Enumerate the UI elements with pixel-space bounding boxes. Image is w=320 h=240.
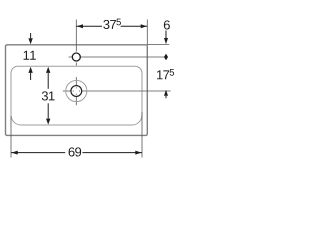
tap hole bottom tick bbox=[75, 63, 77, 66]
tap hole centerline vertical (extension up to dim 37.5) bbox=[75, 20, 77, 52]
dim 69 right arrow bbox=[135, 151, 141, 155]
dim 37.5 line right segment bbox=[121, 25, 148, 27]
dim 69 label bbox=[69, 147, 82, 156]
dim 6 down arrow bbox=[165, 31, 167, 39]
dim 31 label bbox=[42, 91, 55, 100]
dim 69 line right segment bbox=[82, 152, 142, 154]
dim 37.5 line left segment bbox=[76, 25, 102, 27]
dim 6/17.5 diamond at tap centerline bbox=[164, 54, 168, 61]
drain inner tick dots bbox=[73, 87, 80, 94]
dim 11 label bbox=[24, 51, 36, 60]
dim 31 line upper segment bbox=[47, 73, 49, 89]
dim 69 extension line right (bowl right edge down) bbox=[141, 112, 143, 158]
dim 11 up arrow (below bowl top edge) bbox=[28, 67, 32, 73]
dim 31 up arrow (at bowl top) bbox=[46, 67, 50, 73]
dim 37.5 left arrow bbox=[77, 24, 83, 28]
tap hole left tick bbox=[69, 56, 72, 58]
dim 17.5 up arrow bbox=[164, 90, 168, 96]
inner bowl outline bbox=[11, 66, 142, 125]
drain outer circle bbox=[66, 80, 87, 101]
dim 37.5 label bbox=[103, 19, 121, 29]
drain centerline horizontal (extension right to dim 17.5) bbox=[63, 90, 71, 92]
dim 69 line left segment bbox=[11, 152, 65, 154]
dim 37.5 right arrow bbox=[141, 24, 147, 28]
dim 31 line lower segment bbox=[47, 103, 49, 118]
dim 69 left arrow bbox=[12, 151, 18, 155]
top edge extension line right bbox=[147, 44, 169, 46]
dim 6 label bbox=[164, 20, 170, 29]
drain centerline vertical bbox=[75, 77, 77, 86]
dim 31 down arrow (at bowl bottom) bbox=[46, 119, 50, 125]
tap hole centerline horizontal (extension right to dim 6/17.5) bbox=[81, 56, 166, 58]
drain inner circle bbox=[71, 86, 82, 97]
tap hole bbox=[72, 53, 80, 61]
dim 11 down arrow (above top edge) bbox=[30, 33, 32, 38]
dim 69 extension line left (bowl left edge down) bbox=[10, 116, 12, 158]
washbasin outer rim (top view) bbox=[6, 45, 148, 136]
dim 17.5 label bbox=[157, 69, 174, 79]
dim 37.5 extension line right (from top-right corner up) bbox=[146, 20, 148, 45]
